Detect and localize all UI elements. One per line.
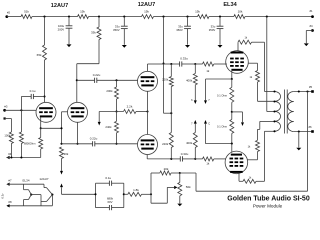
svg-text:220k: 220k bbox=[162, 142, 169, 146]
svg-text:15k: 15k bbox=[144, 10, 149, 14]
svg-text:EL34: EL34 bbox=[223, 2, 237, 8]
svg-text:0.1u: 0.1u bbox=[30, 89, 36, 93]
svg-text:0.33u: 0.33u bbox=[180, 56, 188, 60]
svg-text:0.1 Ohm: 0.1 Ohm bbox=[217, 124, 227, 128]
svg-text:240k: 240k bbox=[105, 125, 112, 129]
svg-text:2.2k: 2.2k bbox=[127, 105, 133, 109]
svg-text:#4: #4 bbox=[309, 24, 313, 28]
svg-text:#7: #7 bbox=[8, 178, 12, 182]
svg-text:#6: #6 bbox=[308, 125, 312, 129]
svg-text:350V: 350V bbox=[176, 28, 183, 32]
svg-text:Golden Tube Audio SI-50: Golden Tube Audio SI-50 bbox=[227, 196, 310, 203]
svg-text:12AU7: 12AU7 bbox=[39, 177, 49, 181]
svg-text:15k: 15k bbox=[195, 10, 200, 14]
svg-text:0.1 Ohm: 0.1 Ohm bbox=[217, 94, 227, 98]
svg-text:350V: 350V bbox=[113, 28, 120, 32]
svg-text:10k: 10k bbox=[238, 10, 243, 14]
svg-text:#3: #3 bbox=[4, 105, 8, 109]
svg-text:15k: 15k bbox=[80, 10, 85, 14]
svg-text:400k: 400k bbox=[186, 141, 193, 145]
svg-text:20k: 20k bbox=[164, 167, 169, 171]
svg-text:#2: #2 bbox=[7, 10, 11, 14]
svg-text:0.22u: 0.22u bbox=[93, 73, 101, 77]
svg-text:#1: #1 bbox=[309, 9, 313, 13]
svg-text:1.8k: 1.8k bbox=[133, 188, 139, 192]
svg-text:60V: 60V bbox=[108, 200, 113, 204]
svg-text:0.1u: 0.1u bbox=[105, 176, 111, 180]
svg-text:200V: 200V bbox=[58, 27, 65, 31]
svg-text:6800Ohm: 6800Ohm bbox=[24, 142, 35, 146]
svg-text:51k: 51k bbox=[24, 10, 29, 14]
svg-text:6.3v: 6.3v bbox=[0, 193, 4, 199]
svg-text:0.33u: 0.33u bbox=[181, 152, 189, 156]
svg-text:C: C bbox=[208, 121, 210, 125]
svg-text:Power Module: Power Module bbox=[253, 203, 283, 208]
svg-text:0.22u: 0.22u bbox=[90, 137, 98, 141]
svg-text:50k: 50k bbox=[186, 185, 191, 189]
svg-text:12AU7: 12AU7 bbox=[51, 3, 68, 9]
svg-text:350V: 350V bbox=[209, 28, 216, 32]
svg-text:400k: 400k bbox=[186, 79, 193, 83]
svg-text:EL34: EL34 bbox=[22, 178, 29, 182]
svg-text:#8: #8 bbox=[8, 200, 12, 204]
svg-text:220k: 220k bbox=[162, 78, 169, 82]
svg-text:20k: 20k bbox=[64, 152, 69, 156]
svg-text:12AU7: 12AU7 bbox=[138, 2, 155, 8]
svg-text:#5: #5 bbox=[309, 85, 313, 89]
svg-text:33k: 33k bbox=[91, 30, 96, 34]
svg-text:65k: 65k bbox=[37, 53, 42, 57]
svg-text:#4: #4 bbox=[8, 152, 12, 156]
svg-text:200k: 200k bbox=[106, 89, 113, 93]
svg-text:100k: 100k bbox=[4, 134, 10, 138]
